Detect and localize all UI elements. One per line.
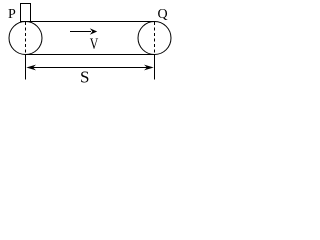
svg-text:V: V <box>90 36 99 53</box>
svg-text:P: P <box>8 7 16 22</box>
svg-text:S: S <box>80 68 89 87</box>
svg-text:Q: Q <box>158 7 168 22</box>
